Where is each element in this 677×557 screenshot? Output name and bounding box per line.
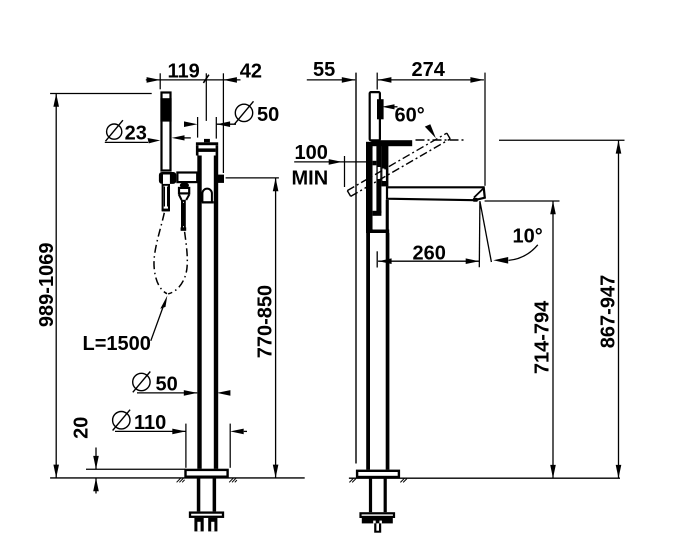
body tie upper [373,161,377,166]
svg-text:110: 110 [134,412,166,434]
column left wall [197,156,201,469]
column top cap [196,142,218,155]
svg-text:23: 23 [125,122,147,144]
dimension 260 extension left [376,251,378,267]
dimension 867-947 arrow down [616,465,622,478]
column side left wall [366,233,370,470]
dimension 55 line [307,79,355,81]
svg-text:50: 50 [257,104,279,126]
svg-text:60°: 60° [395,104,425,126]
dimension 770-850 line [275,178,277,478]
hose connector tube [181,201,187,231]
column side right wall [386,233,390,470]
dimension 119 extension line left [159,73,161,89]
body front lower bar [386,200,389,232]
dimension 867-947 line [618,140,620,478]
dimension 714-794 arrow up [550,201,556,214]
diameter 50 lower leader line [137,392,197,394]
dimension 119 center tick [203,75,209,83]
svg-text:42: 42 [240,60,262,82]
dimension 770-850 arrow up [273,178,279,191]
diameter 23 symbol [106,120,123,141]
label 10 degrees arc arrow [493,245,538,264]
spout side view [387,187,485,200]
diameter 50 lower arrow right [184,390,198,396]
spout arch front view [202,189,212,203]
handle lever black insert [377,99,384,119]
hand shower lower grip tube [162,185,170,212]
diameter 50 top extension left [197,117,199,138]
water stream line 10 deg [480,201,492,262]
rotation arc arrowhead [425,124,436,138]
floor line left figure [50,477,305,479]
dimension 260 arrow left [378,258,392,264]
svg-text:714-794: 714-794 [531,300,553,374]
body mid white notch [378,167,381,179]
floor hatch left of plate [177,478,185,482]
diameter 50 lower arrow left [217,390,231,396]
spout tip corner [473,198,478,202]
dimension 20 lower leg [93,478,99,494]
shower holder cradle [159,172,176,184]
lower connection flange [190,513,223,517]
label L=1500 arrowhead [160,296,167,309]
right supply pipe below floor [369,478,387,512]
svg-text:20: 20 [70,417,92,439]
right lower flange [361,513,395,517]
right flange [357,471,399,477]
dimension 714-794 arrow down [550,465,556,478]
extension line spout tip vertical [484,73,486,186]
lever rotation centerline [416,139,465,141]
floor line right figure [349,477,620,479]
dimension 714-794 extension top [485,200,560,202]
hose connector block [179,188,189,194]
label 60 degrees leader arrow [382,104,398,109]
supply pipe below floor [197,478,216,512]
extension line 100 MIN [344,156,346,187]
column top plug bump [204,139,210,142]
diameter 110 symbol [113,410,131,431]
dimension 989-1069 arrow up [53,94,59,107]
inlet stub left [194,518,203,532]
dimension 867-947 arrow up [616,140,622,153]
handle knob side view [370,92,380,140]
diameter 50 top symbol [234,101,253,124]
spout tip bevel line [474,189,483,198]
diameter 50 top arrow left [217,121,231,127]
holder arm bar [177,173,197,183]
dimension 274 arrow left [378,77,392,83]
diameter 110 leader line [115,430,186,432]
mixer body back band [366,142,373,233]
diameter 110 extension left [185,424,187,468]
diameter 50 top arrow right [184,121,198,127]
hose loop dash-dot right curve [168,232,187,294]
dimension 770-850 arrow down [273,465,279,478]
hose outlet square [218,175,224,183]
dimension 119 arrow [147,77,161,83]
dimension 260 arrow right [466,258,480,264]
dimension 989-1069 line [55,94,57,478]
right inlet stem [374,523,381,532]
dimension 119/42 line [146,79,241,81]
dimension 55 arrow [342,77,356,83]
dimension 42 arrow [223,77,237,83]
dimension 274 arrow right [470,77,484,83]
hose loop dash-dot left curve [154,213,167,294]
bar under arch [202,201,214,203]
dimension 20 upper leg [93,448,99,470]
base plate [186,470,228,477]
svg-text:274: 274 [412,59,446,81]
diameter 23 arrow left with tail [172,135,191,140]
phantom rotated lever band [347,133,450,196]
right inlet stub row [362,518,393,524]
wall reference line [355,73,357,464]
diameter 23 leader underline [105,141,148,143]
body front upper band [381,146,388,187]
body mid band [376,146,381,213]
column right wall [214,156,218,469]
extension line 42 right [222,73,224,173]
dimension 274 line [378,79,484,81]
extension line lever front [376,73,378,90]
dimension 989-1069 extension line top [50,93,152,95]
dimension 867-947 extension top [499,139,625,141]
hose connector taper [179,195,189,201]
hand shower wand body [160,93,171,171]
svg-text:770-850: 770-850 [254,285,276,358]
diameter 110 extension right [229,424,231,468]
diameter 23 arrow right [148,138,161,143]
body front white slot [382,169,386,182]
label L=1500 leader [151,303,165,341]
hose connector nut [180,182,189,188]
lever arm horizontal [371,140,412,146]
diameter 110 arrow right [172,429,186,435]
body tie lower [373,211,382,216]
dimension 100 MIN text [292,142,329,189]
dimension 714-794 line [552,201,554,478]
diameter 50 top extension right [215,117,217,139]
inlet stub right [208,518,217,532]
body slit white [373,148,377,229]
svg-text:L=1500: L=1500 [83,333,151,355]
hose outlet leader line [226,177,279,179]
floor hatch right of right flange [400,478,407,482]
floor hatch left of right flange [349,478,356,482]
svg-text:MIN: MIN [292,167,329,189]
dimension 260 line [378,260,479,262]
extension line column center [205,73,207,121]
diameter 50 top tail line [217,123,236,125]
svg-text:989-1069: 989-1069 [36,243,58,328]
svg-text:100: 100 [295,142,328,164]
diameter 50 lower symbol [133,372,151,393]
body bottom tie [366,230,389,234]
dimension 100 MIN leader with arrow [294,159,366,165]
dimension 989-1069 arrow down [53,465,59,478]
dimension 20 extension line [86,468,186,470]
water stream line vertical [478,201,481,267]
svg-text:119: 119 [168,60,200,82]
diameter 110 arrow left with tail [230,429,247,435]
floor hatch right of plate [229,478,237,482]
svg-text:55: 55 [313,59,335,81]
svg-text:867-947: 867-947 [597,275,619,348]
svg-text:10°: 10° [513,226,543,248]
